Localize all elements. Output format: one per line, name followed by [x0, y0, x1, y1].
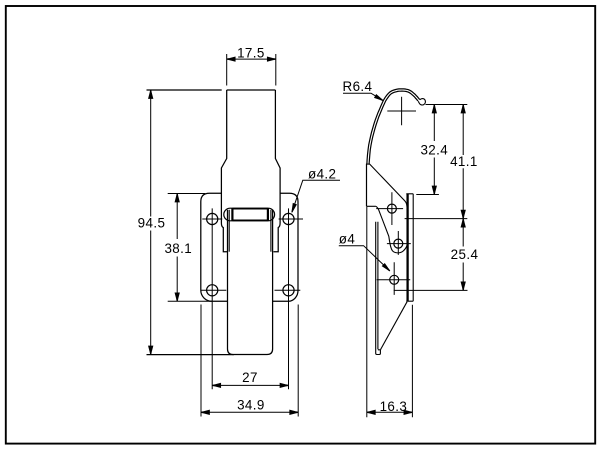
side hole 3 [390, 275, 399, 284]
ext line hook tip (for 32.4/41.1) [426, 104, 468, 106]
dim 94.5 extension top [147, 89, 222, 91]
hook inner curve [369, 91, 418, 164]
lever arm inner edge right [270, 210, 272, 252]
bottom tab diagonal [381, 302, 408, 350]
side hole 1 [387, 204, 396, 213]
dim 17.5 line [227, 58, 276, 60]
mounting plate outline right part [273, 193, 298, 301]
dim 38.1 line [176, 194, 178, 302]
ext line bottom hole level (for 25.4) [394, 289, 468, 291]
hook outer curve [367, 89, 420, 207]
dim 27 line [212, 384, 288, 386]
bail cross-bar (wire loop front) [224, 208, 275, 221]
svg-text:R6.4: R6.4 [343, 79, 373, 94]
ext line plate top (for 32.4) [416, 194, 439, 196]
dim 16.3 line [367, 411, 413, 413]
side hole 2 [394, 239, 403, 248]
leader diameter 4.2 [292, 180, 340, 212]
svg-text:27: 27 [242, 370, 258, 385]
dim 16.3 extension lines [367, 206, 413, 417]
bail wire bend right [267, 209, 269, 221]
bail wire inner edge side view [378, 222, 381, 350]
outer corner bottom [367, 205, 376, 207]
bail wire bend left [231, 209, 233, 221]
hole centerline vertical right (also ext for dim 27) [288, 208, 290, 389]
hole centerline horizontal top-right [279, 218, 303, 220]
ext line top hole level (for 41.1/25.4) [405, 218, 468, 220]
dim 25.4 line [462, 219, 464, 291]
svg-text:25.4: 25.4 [451, 247, 479, 262]
catch curl around middle hole [376, 206, 407, 253]
mounting plate outline left part [201, 193, 228, 301]
hook lower cut [367, 163, 370, 165]
hole bottom-right [283, 285, 294, 296]
svg-text:41.1: 41.1 [450, 154, 478, 169]
svg-text:16.3: 16.3 [380, 399, 408, 414]
bail bar bottom edge thick [232, 219, 268, 221]
lever body outline [227, 89, 276, 91]
dim 94.5 extension bottom [147, 354, 234, 356]
side plate bottom cap [406, 300, 413, 302]
hole top-right [283, 213, 294, 224]
dim 94.5 line [150, 90, 152, 355]
dim 32.4 line [433, 105, 435, 195]
R6.4 leader [343, 93, 383, 100]
svg-text:ø4: ø4 [339, 231, 356, 246]
lever lower arm with rounded bottom tip [228, 210, 273, 355]
hole bottom-left [207, 285, 218, 296]
hole centerline horizontal top-left [202, 218, 222, 220]
dim 38.1 extension lines [168, 194, 212, 302]
bail wire side view with bottom hook [376, 222, 381, 355]
leader diameter 4 [339, 246, 390, 271]
dim 34.9 line [201, 411, 298, 413]
dim 34.9 extension lines [201, 305, 298, 417]
hole centerline vertical left (also ext for dim 27) [211, 208, 213, 389]
side hole 3 centerlines [377, 262, 411, 295]
svg-text:17.5: 17.5 [237, 45, 265, 60]
side hole 1 centerlines [376, 192, 403, 225]
bail bar top edge thick [232, 208, 268, 210]
R6.4 center mark [387, 97, 416, 126]
bend diagonal to plate [370, 164, 407, 206]
side plate top cap [406, 193, 413, 195]
hole centerline horizontal bottom-left [201, 289, 227, 291]
dim 41.1 line [462, 105, 464, 219]
svg-text:34.9: 34.9 [237, 398, 265, 413]
hook tip curl [418, 99, 425, 105]
hole centerline horizontal bottom-right [275, 289, 301, 291]
svg-text:ø4.2: ø4.2 [308, 167, 336, 182]
dim 17.5 extension lines [227, 54, 276, 86]
side plate back line [412, 194, 414, 301]
side plate front line [406, 194, 408, 301]
side hole 2 centerlines [387, 231, 411, 255]
svg-text:38.1: 38.1 [164, 241, 192, 256]
svg-text:94.5: 94.5 [138, 215, 166, 230]
hole top-left [207, 213, 218, 224]
svg-text:32.4: 32.4 [420, 142, 448, 157]
lever arm inner edge left [228, 210, 230, 252]
